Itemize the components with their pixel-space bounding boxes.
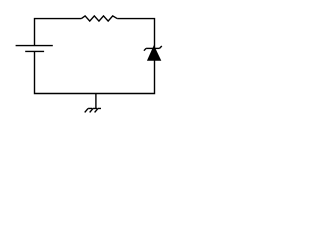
zener left wing bbox=[144, 48, 146, 50]
ground bar segment 1 bbox=[88, 107, 92, 109]
zener triangle bbox=[148, 47, 160, 60]
ground bar segment 3 bbox=[98, 107, 101, 109]
battery V1 long plate bbox=[16, 45, 53, 47]
battery V1 short plate bbox=[25, 50, 44, 52]
ground slash 3 bbox=[95, 108, 98, 112]
ground bar segment 2 bbox=[93, 107, 97, 109]
wire top-left + left upper (corner) bbox=[35, 19, 82, 46]
ground slash 2 bbox=[90, 108, 93, 112]
zener diode D1 cathode bar bbox=[146, 47, 159, 49]
wire left lower + bottom + right lower bbox=[35, 51, 155, 93]
ground slash 1 bbox=[85, 108, 88, 112]
resistor R1 bbox=[81, 16, 117, 21]
zener right wing bbox=[160, 46, 162, 48]
wire top-right + right upper (corner) bbox=[117, 19, 154, 49]
wire ground stub bbox=[95, 94, 97, 109]
